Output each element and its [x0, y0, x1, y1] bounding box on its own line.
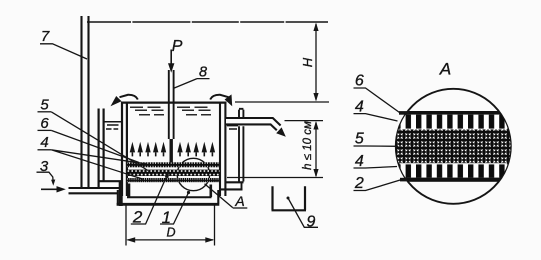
detail: top mesh line 6 [394, 111, 513, 115]
wire: top water-level reference line [87, 21, 328, 23]
label 5 [38, 97, 52, 114]
filter layer band bottom (2 grid) [127, 178, 220, 182]
outlet spout [226, 118, 286, 137]
loading rod 8 lower stem [169, 139, 172, 163]
svg-text:4: 4 [355, 153, 364, 170]
detail label 5 [354, 131, 399, 148]
dimension h <= 10 cm [227, 121, 323, 178]
svg-text:A: A [439, 60, 451, 79]
overflow arrow left [111, 95, 138, 106]
filter layer band top (4) [127, 162, 220, 167]
right channel floor and step [226, 181, 244, 183]
collecting beaker 9 [272, 186, 319, 230]
detail: lower stripe layer 4 [394, 164, 513, 177]
label 8 [174, 64, 209, 88]
detail label 6 [354, 73, 400, 113]
vessel top rim [121, 101, 227, 103]
dimension D [126, 206, 215, 246]
label 1 with leader [160, 191, 190, 227]
flow arrows row (left group) [130, 142, 167, 153]
bottom tray (vessel body 1) [119, 181, 123, 206]
detail label 4 upper [354, 98, 398, 121]
dimension H [235, 23, 329, 103]
svg-text:9: 9 [307, 214, 316, 231]
detail marker circle (region A) [177, 158, 209, 190]
svg-text:4: 4 [40, 134, 48, 151]
svg-text:8: 8 [199, 64, 207, 80]
leader lines for labels 5 6 4 [51, 112, 148, 171]
svg-text:5: 5 [355, 131, 364, 148]
detail label 2 [354, 175, 402, 192]
water level in left channel [105, 122, 122, 129]
svg-text:A: A [234, 193, 244, 209]
svg-text:H: H [300, 57, 315, 67]
right overflow channel wall with stub [239, 109, 243, 118]
label 6 [38, 115, 52, 132]
left overflow channel outer wall [99, 109, 104, 188]
svg-text:D: D [166, 225, 175, 239]
water surface dashes inside vessel [130, 107, 211, 114]
label 4 [38, 134, 52, 151]
svg-text:6: 6 [355, 73, 364, 90]
label 7 [40, 28, 87, 59]
detail: granular layer 5 [394, 129, 513, 163]
force P arrow [168, 38, 183, 73]
overflow arrow right [210, 94, 232, 106]
detail: upper stripe layer 4 [394, 115, 513, 129]
standpipe 7 [82, 16, 89, 188]
detail label 4 lower [354, 153, 398, 170]
left channel floor [98, 180, 123, 182]
vessel right wall [220, 102, 225, 197]
svg-text:7: 7 [41, 28, 50, 45]
loading rod 8 (pipe) [169, 70, 174, 139]
water level in right channel [227, 126, 238, 129]
detail layer 2 line stub [400, 178, 407, 182]
vessel left wall [122, 102, 127, 197]
svg-text:2: 2 [354, 175, 364, 192]
svg-text:5: 5 [40, 97, 49, 114]
svg-text:P: P [172, 38, 183, 55]
svg-text:6: 6 [40, 115, 49, 132]
label 2 with leader arrow [131, 171, 169, 227]
leader and label A (main view) [205, 184, 248, 209]
filter layer band middle (5) [127, 170, 220, 176]
label 3 with inlet arrow [37, 158, 66, 193]
detail circle [396, 89, 511, 204]
svg-text:4: 4 [355, 98, 364, 115]
detail layer 6 line stub [399, 111, 409, 115]
flow arrows row (right group) [177, 142, 215, 153]
svg-text:h ≤ 10 см: h ≤ 10 см [302, 121, 314, 170]
detail: bottom grid line 2 [394, 178, 513, 182]
inlet pipe from 3 [69, 188, 120, 193]
